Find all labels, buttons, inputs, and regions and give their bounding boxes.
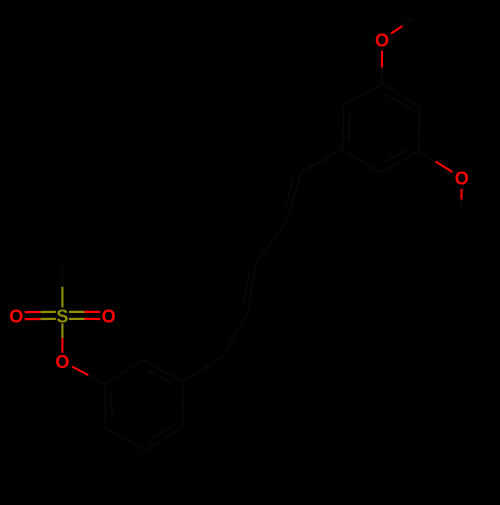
- bond O-S: [61, 323, 63, 352]
- bond R2C1-O (ester O): [72, 367, 104, 385]
- bond O-CH3 (methoxy 2 methyl): [460, 189, 462, 210]
- polyene chain linker: [182, 150, 342, 382]
- svg-text:O: O: [455, 169, 469, 189]
- benzene ring R2 (mesyloxyphenyl): [105, 360, 184, 450]
- double bond S=O left: [25, 312, 56, 319]
- bond S-CH3: [61, 266, 63, 307]
- svg-text:O: O: [102, 306, 116, 326]
- svg-text:O: O: [375, 31, 389, 51]
- svg-text:S: S: [56, 306, 68, 326]
- bond R1C3-O (methoxy 2): [419, 151, 453, 172]
- benzene ring R1 (3,5-dimethoxyphenyl): [342, 84, 419, 172]
- svg-text:O: O: [55, 352, 69, 372]
- bond O-CH3 (methoxy 1 methyl): [391, 19, 413, 34]
- bond R1C1-O (methoxy 1): [381, 51, 383, 84]
- svg-text:O: O: [9, 307, 23, 327]
- double bond S=O right: [69, 312, 100, 319]
